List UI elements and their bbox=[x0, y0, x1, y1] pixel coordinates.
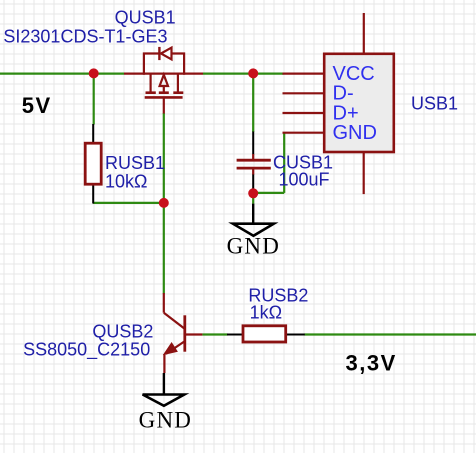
svg-text:GND: GND bbox=[139, 407, 192, 432]
svg-text:GND: GND bbox=[333, 122, 377, 144]
ground symbol under cap bbox=[233, 224, 274, 236]
emitter arrow bbox=[164, 343, 177, 355]
svg-text:100uF: 100uF bbox=[279, 170, 330, 190]
base bar bbox=[183, 315, 186, 351]
wire MOSFET source to VCC pin bbox=[203, 72, 283, 74]
emitter lead bbox=[163, 354, 165, 373]
wire GND pin to cap bottom junction bbox=[253, 192, 284, 194]
capacitor CUSB1 bbox=[237, 154, 271, 175]
svg-text:D+: D+ bbox=[333, 102, 359, 124]
wire 5V net horizontal left bbox=[0, 72, 124, 74]
middle channel bar bbox=[159, 91, 169, 94]
body arrow bbox=[160, 75, 168, 86]
USB connector USB1 bbox=[324, 54, 394, 152]
svg-text:5V: 5V bbox=[22, 93, 52, 118]
diode cathode bar bbox=[158, 47, 160, 60]
wire base to RUSB2 bbox=[202, 333, 227, 335]
svg-text:SS8050_C2150: SS8050_C2150 bbox=[23, 340, 150, 361]
pin shield bottom bbox=[363, 152, 365, 194]
wire down from junction to RUSB1 bbox=[93, 74, 95, 125]
svg-text:3,3V: 3,3V bbox=[346, 351, 397, 376]
svg-text:RUSB1: RUSB1 bbox=[105, 153, 165, 173]
transistor QUSB2 bbox=[164, 293, 203, 373]
right channel stub bbox=[177, 74, 179, 92]
pin D+ bbox=[283, 112, 325, 114]
pin GND bbox=[283, 132, 325, 134]
resistor RUSB1 bbox=[85, 143, 101, 184]
base lead bbox=[186, 333, 202, 335]
svg-text:10kΩ: 10kΩ bbox=[105, 171, 147, 191]
gate plate bbox=[145, 96, 183, 99]
wire from USB GND pin down bbox=[283, 133, 285, 193]
left channel stub bbox=[150, 74, 152, 92]
junction VCC/CUSB1 bbox=[248, 68, 258, 78]
pin VCC bbox=[283, 72, 325, 74]
ground lead under transistor bbox=[163, 373, 165, 394]
wire RUSB1 bottom to gate net bbox=[93, 202, 164, 204]
junction CUSB1/GND bbox=[248, 188, 258, 198]
junction RUSB1/gate bbox=[159, 198, 169, 208]
diode triangle bbox=[161, 48, 172, 60]
collector diagonal bbox=[164, 313, 185, 329]
resistor RUSB2 pins bbox=[227, 334, 305, 336]
pin shield top bbox=[363, 13, 365, 54]
right channel bar bbox=[173, 91, 183, 94]
svg-text:QUSB2: QUSB2 bbox=[92, 322, 153, 342]
svg-text:VCC: VCC bbox=[333, 63, 375, 85]
wire gate net vertical bbox=[163, 113, 165, 294]
ground lead under cap bbox=[252, 204, 254, 224]
wire junction to CUSB1 top bbox=[252, 74, 254, 132]
wire junction to GND symbol stub bbox=[252, 193, 254, 204]
body diode loop bbox=[144, 54, 184, 75]
pin D- bbox=[283, 92, 325, 94]
wire RUSB2 to 3.3V net bbox=[305, 333, 476, 335]
gate lead bbox=[163, 98, 165, 114]
resistor RUSB1 pins bbox=[92, 124, 94, 204]
drain lead bbox=[124, 72, 203, 74]
mosfet QUSB1 bbox=[124, 47, 203, 114]
svg-text:USB1: USB1 bbox=[411, 94, 458, 114]
resistor RUSB2 bbox=[243, 326, 286, 342]
svg-text:QUSB1: QUSB1 bbox=[115, 7, 176, 27]
svg-text:D-: D- bbox=[333, 83, 354, 105]
left channel bar bbox=[146, 91, 156, 94]
svg-text:1kΩ: 1kΩ bbox=[250, 303, 282, 323]
ground symbol under transistor bbox=[143, 395, 185, 406]
svg-text:SI2301CDS-T1-GE3: SI2301CDS-T1-GE3 bbox=[3, 26, 167, 46]
junction 5V/RUSB1 bbox=[89, 68, 99, 78]
emitter diagonal bbox=[166, 342, 184, 354]
collector lead bbox=[163, 293, 165, 313]
capacitor CUSB1 pins bbox=[252, 132, 254, 192]
svg-text:GND: GND bbox=[227, 234, 280, 259]
